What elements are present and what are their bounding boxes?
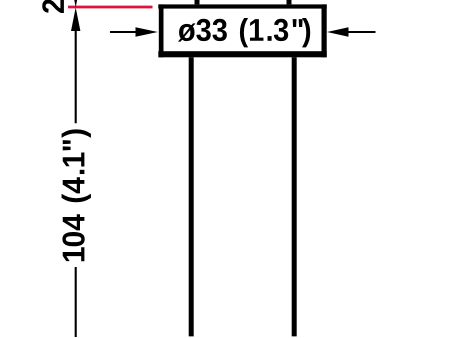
arrowhead pointing left at box right edge bbox=[327, 27, 349, 37]
red section reference line bbox=[68, 6, 153, 9]
body outline left (narrow top stub above box) bbox=[195, 0, 200, 8]
dimension arrowhead pointing up to red line (104 dim) bbox=[71, 8, 80, 32]
horizontal dimension line left of box (o33 dim) bbox=[110, 31, 137, 33]
dimension label box top border bbox=[158, 4, 326, 8]
dimension label box left border bbox=[159, 4, 164, 57]
horizontal dimension line right of box (o33 dim) bbox=[348, 31, 376, 33]
dimension text 2 rotated (cut off at top), drawn as glyph paths bbox=[42, 0, 64, 13]
dimension label box right border bbox=[322, 4, 327, 57]
vertical dimension line upper segment (104 dim) bbox=[75, 29, 77, 123]
dimension text o33 (1.3") drawn as glyph paths bbox=[178, 18, 310, 47]
body outline left (main cylinder side below box) bbox=[189, 52, 194, 336]
dimension text 104 (4.1") rotated, drawn as glyph paths bbox=[62, 129, 91, 261]
arrowhead pointing right at box left edge bbox=[136, 27, 158, 37]
body outline right (main cylinder side below box) bbox=[292, 52, 297, 336]
dimension label box bottom border bbox=[158, 51, 326, 57]
vertical dimension line lower segment (104 dim) bbox=[75, 267, 77, 337]
body outline right (narrow top stub above box) bbox=[287, 0, 292, 8]
dimension arrowhead pointing down to red line (cut off at top) bbox=[71, 0, 80, 7]
dimension label box for o33 : white fill bbox=[158, 4, 326, 57]
